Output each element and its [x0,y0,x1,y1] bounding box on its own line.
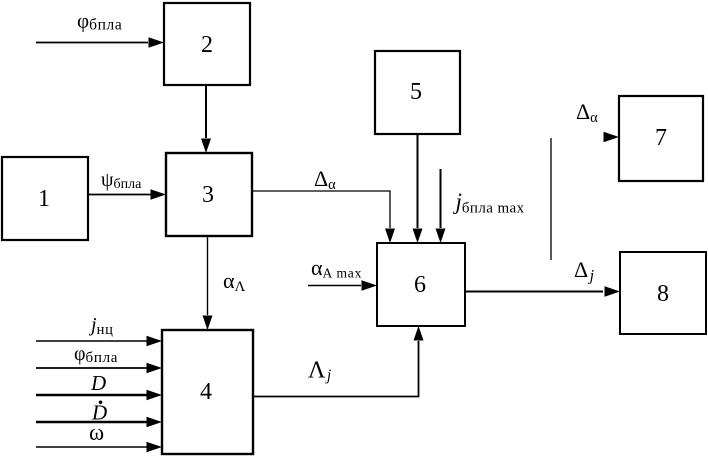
svg-text:4: 4 [200,379,212,405]
svg-text:2: 2 [201,32,213,58]
block 3 [166,153,252,236]
wire block5 to block6 [413,134,423,243]
svg-text:3: 3 [202,182,214,208]
wire j_nc into block4 [36,336,162,346]
wire phi_bpla into block 2 [36,37,164,47]
wire j_bpla_max into block6 [436,169,446,243]
wire Lambda_j block4 to block6 bottom [253,326,424,397]
svg-text:D: D [90,371,106,395]
vertical divider line [550,138,552,260]
block 1 [2,157,88,240]
svg-text:7: 7 [655,125,667,151]
wire delta_j block6 to block8 [465,286,620,296]
block 4 [162,330,253,454]
wire delta_alpha block3 to block6 top [252,191,395,243]
svg-text:1: 1 [38,186,50,212]
wire phi_bpla into block4 [36,363,162,373]
wire alpha_A_max into block6 [308,280,377,290]
block 6 [377,243,465,326]
wire block2 to block3 [201,85,211,153]
svg-text:ω: ω [89,420,104,445]
svg-text:6: 6 [414,272,426,298]
arrowhead into block 7 [604,132,620,142]
block 5 [375,51,460,134]
wire D_dot into block4 [36,417,162,427]
svg-text:5: 5 [410,79,422,105]
wire D into block4 [36,390,162,400]
wire psi_bpla block1 to block3 [88,189,166,199]
block 2 [164,3,250,85]
wire alpha_L block3 to block4 [203,236,213,330]
block 7 [619,96,703,181]
block 8 [620,252,706,334]
wire omega into block4 [36,442,162,452]
svg-text:8: 8 [657,281,669,307]
